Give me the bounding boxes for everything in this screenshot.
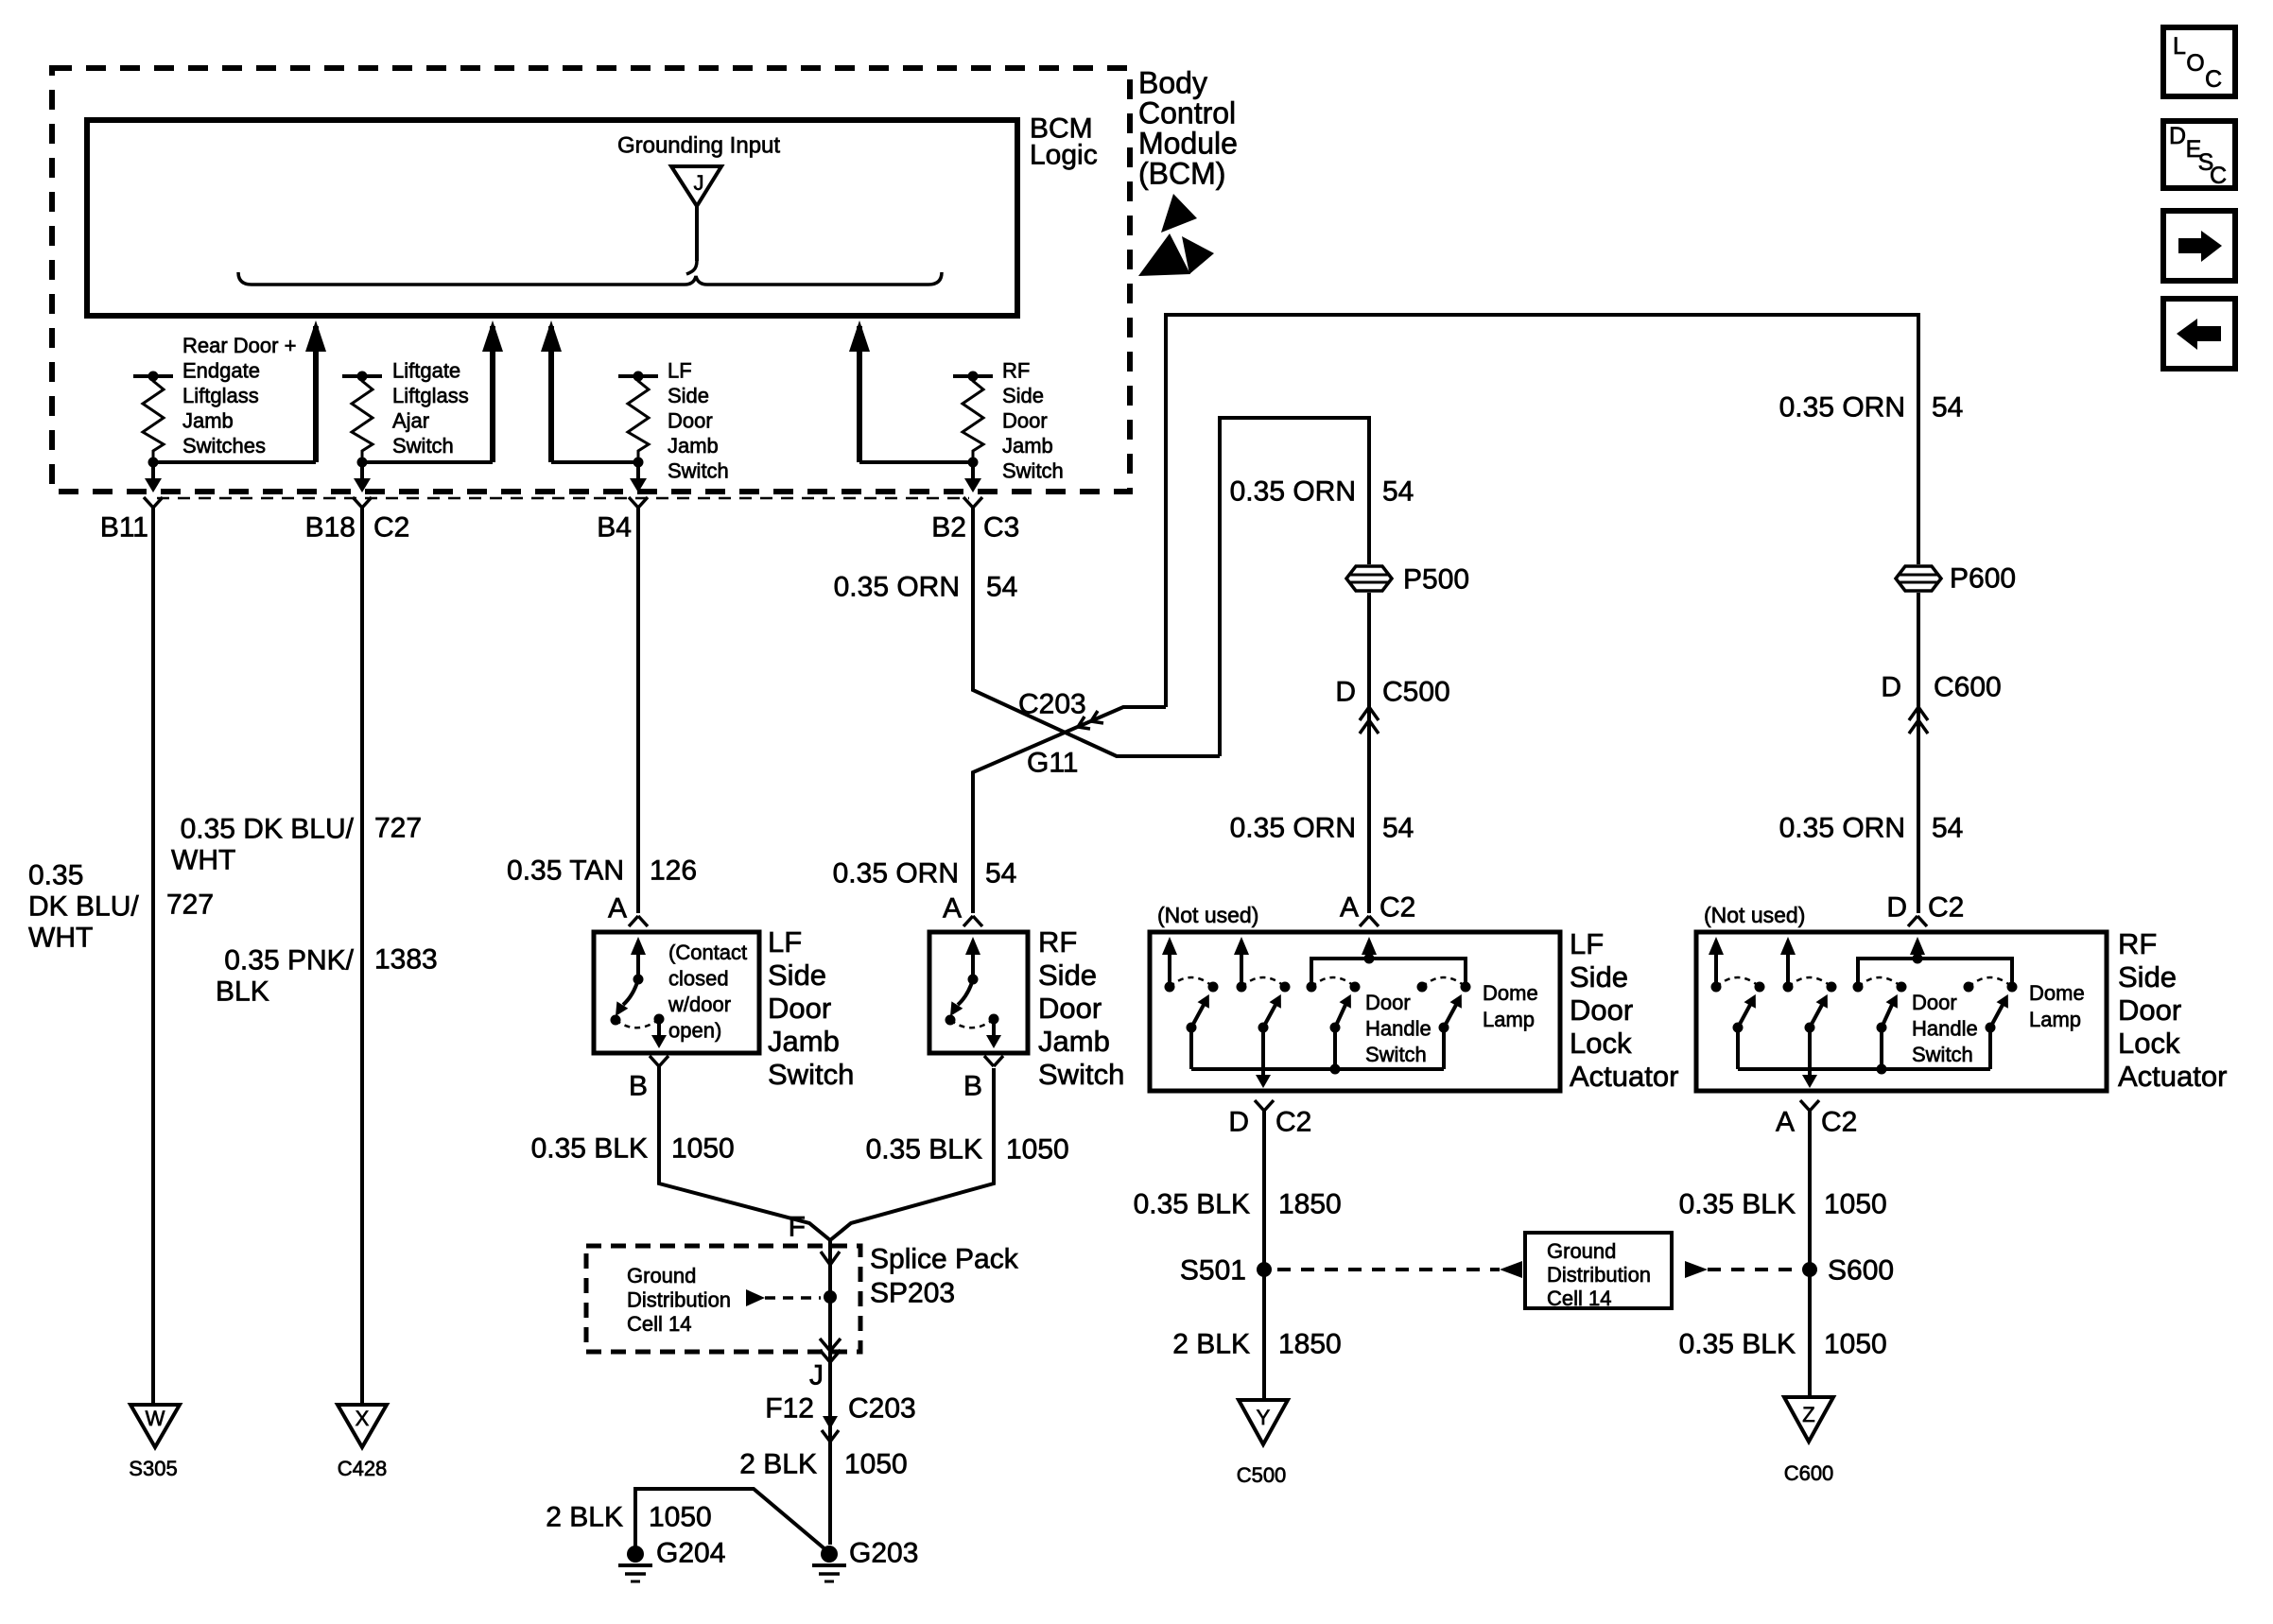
svg-text:Door: Door bbox=[1570, 993, 1633, 1027]
svg-text:Side: Side bbox=[2118, 960, 2177, 993]
svg-text:Liftglass: Liftglass bbox=[392, 384, 469, 407]
svg-text:Switch: Switch bbox=[1912, 1043, 1973, 1066]
splice S501 bbox=[1257, 1262, 1272, 1277]
svg-text:1050: 1050 bbox=[649, 1502, 712, 1533]
svg-text:C2: C2 bbox=[1379, 892, 1415, 924]
arrow into BCM logic from R4 bbox=[857, 326, 862, 462]
svg-text:Jamb: Jamb bbox=[1038, 1025, 1110, 1058]
svg-text:BLK: BLK bbox=[216, 976, 269, 1008]
connector pin B11 bbox=[144, 497, 163, 508]
svg-text:C600: C600 bbox=[1784, 1461, 1834, 1485]
door handle / dome lamp feed bracket in LF Side Door Lock Actuator bbox=[1311, 959, 1466, 987]
off-page triangle Z bbox=[1784, 1397, 1833, 1442]
svg-text:Jamb: Jamb bbox=[668, 434, 719, 458]
wire: crossover leg to RF jamb switch pin A bbox=[973, 707, 1166, 913]
wire: bottom bus of RF Side Door Lock Actuator bbox=[1738, 1067, 1990, 1071]
svg-text:C600: C600 bbox=[1934, 672, 2002, 703]
svg-text:(Not used): (Not used) bbox=[1157, 903, 1258, 927]
svg-text:Liftgate: Liftgate bbox=[392, 358, 460, 382]
svg-text:C3: C3 bbox=[983, 512, 1019, 544]
svg-text:Dome: Dome bbox=[1483, 981, 1538, 1005]
svg-text:LF: LF bbox=[1570, 927, 1604, 960]
svg-text:C: C bbox=[2210, 163, 2227, 189]
ground G203 bbox=[821, 1546, 838, 1563]
svg-text:C: C bbox=[2205, 66, 2222, 93]
svg-text:Door: Door bbox=[1038, 992, 1102, 1025]
svg-text:54: 54 bbox=[986, 572, 1017, 603]
wire: resistor R4 bottom to BCM arrow bbox=[859, 460, 973, 464]
svg-text:Switch: Switch bbox=[1038, 1058, 1124, 1091]
svg-text:Switches: Switches bbox=[182, 434, 266, 458]
svg-text:WHT: WHT bbox=[171, 845, 235, 876]
svg-text:LF: LF bbox=[668, 358, 692, 382]
switch S1 inside RF Side Door Lock Actuator bbox=[1709, 937, 1765, 1069]
grounding input triangle J bbox=[671, 166, 721, 206]
switch contact inside RF Side Door Jamb Switch bbox=[946, 937, 1002, 1048]
svg-text:RF: RF bbox=[2118, 927, 2157, 960]
icon: forward arrow box bbox=[2163, 211, 2235, 281]
svg-text:Lamp: Lamp bbox=[2029, 1008, 2081, 1031]
connector C203 crossover chevrons bbox=[1078, 717, 1090, 729]
svg-text:Endgate: Endgate bbox=[182, 358, 260, 382]
svg-text:B4: B4 bbox=[597, 512, 632, 544]
wire: P500 to C500 bbox=[1367, 593, 1371, 913]
svg-text:G11: G11 bbox=[1027, 748, 1078, 779]
svg-text:P600: P600 bbox=[1950, 563, 2016, 595]
svg-text:(BCM): (BCM) bbox=[1138, 156, 1225, 190]
svg-text:Handle: Handle bbox=[1912, 1016, 1978, 1040]
wire: B11 to S305 (0.35 DK BLU/WHT 727) bbox=[151, 508, 155, 1405]
switch S4 inside LF Side Door Lock Actuator bbox=[1417, 977, 1471, 1069]
RF Side Door Jamb Switch box bbox=[929, 932, 1028, 1053]
svg-text:F12: F12 bbox=[765, 1393, 814, 1425]
svg-text:C2: C2 bbox=[1821, 1107, 1857, 1138]
svg-text:Z: Z bbox=[1802, 1403, 1814, 1426]
BCM dashed outline box bbox=[52, 68, 1130, 492]
svg-text:SP203: SP203 bbox=[870, 1278, 955, 1309]
svg-text:closed: closed bbox=[668, 966, 729, 990]
wire: resistor R2 bottom to BCM arrow bbox=[362, 460, 493, 464]
svg-text:Distribution: Distribution bbox=[627, 1287, 731, 1311]
arrow into BCM logic from R1 bbox=[313, 326, 319, 462]
svg-text:C428: C428 bbox=[338, 1457, 388, 1480]
svg-text:Logic: Logic bbox=[1030, 140, 1098, 171]
svg-text:Cell 14: Cell 14 bbox=[627, 1312, 691, 1336]
switch S2 inside RF Side Door Lock Actuator bbox=[1780, 937, 1837, 1069]
svg-text:727: 727 bbox=[166, 890, 214, 921]
svg-text:Ground: Ground bbox=[1547, 1239, 1616, 1263]
svg-text:J: J bbox=[809, 1360, 824, 1391]
arrow: R3 output through BCM boundary bbox=[636, 462, 640, 487]
off-page triangle Y bbox=[1239, 1400, 1288, 1444]
LF Side Door Lock Actuator box bbox=[1150, 932, 1560, 1091]
arrow to bottom pin of LF Side Door Lock Actuator bbox=[1261, 1069, 1265, 1082]
svg-text:1850: 1850 bbox=[1278, 1189, 1342, 1220]
svg-text:Distribution: Distribution bbox=[1547, 1263, 1651, 1287]
RF Side Door Lock Actuator box bbox=[1696, 932, 2107, 1091]
wire: LF actuator D to C500 triangle (0.35 BLK 1850 / 2 BLK 1850) bbox=[1262, 1111, 1266, 1400]
svg-text:54: 54 bbox=[1932, 813, 1963, 844]
svg-text:0.35 BLK: 0.35 BLK bbox=[866, 1134, 982, 1166]
svg-text:1050: 1050 bbox=[1006, 1134, 1069, 1166]
wire: resistor R1 bottom to BCM arrow bbox=[153, 460, 316, 464]
switch S2 inside LF Side Door Lock Actuator bbox=[1234, 937, 1291, 1069]
switch S1 inside LF Side Door Lock Actuator bbox=[1162, 937, 1219, 1069]
label: R3 description bbox=[668, 358, 729, 482]
splice pack pin J bbox=[820, 1339, 841, 1351]
grounding brace inside BCM bbox=[686, 261, 697, 274]
svg-text:B2: B2 bbox=[931, 512, 966, 544]
wire: top horizontal to P600 branch bbox=[1166, 315, 1918, 707]
thin dashed connector interface line below BCM bbox=[157, 497, 969, 500]
svg-text:0.35 BLK: 0.35 BLK bbox=[531, 1133, 648, 1165]
svg-text:Liftglass: Liftglass bbox=[182, 384, 259, 407]
svg-text:D: D bbox=[1886, 892, 1907, 924]
svg-text:Grounding Input: Grounding Input bbox=[617, 133, 780, 159]
svg-text:Door: Door bbox=[1365, 991, 1411, 1014]
svg-text:0.35 ORN: 0.35 ORN bbox=[1779, 392, 1905, 423]
svg-text:Side: Side bbox=[768, 959, 826, 992]
svg-text:Door: Door bbox=[768, 992, 831, 1025]
wire: C3 down to crossover (0.35 ORN 54) bbox=[973, 508, 1220, 756]
svg-text:0.35 ORN: 0.35 ORN bbox=[834, 572, 960, 603]
wire: through splice pack SP203 bbox=[828, 1240, 832, 1545]
svg-text:L: L bbox=[2173, 33, 2186, 60]
icon: back arrow box bbox=[2163, 299, 2235, 369]
connector pin D C2 (top of RF Side Door Lock Actuator) bbox=[1908, 916, 1927, 926]
svg-text:A: A bbox=[608, 893, 627, 924]
svg-text:Actuator: Actuator bbox=[2118, 1060, 2227, 1093]
svg-text:S501: S501 bbox=[1180, 1255, 1246, 1287]
svg-text:Module: Module bbox=[1138, 126, 1238, 160]
svg-text:WHT: WHT bbox=[28, 923, 93, 954]
svg-text:Jamb: Jamb bbox=[182, 408, 234, 432]
resistor R1 Rear Door + Endgate Liftglass Jamb Switches bbox=[133, 371, 173, 468]
svg-text:B: B bbox=[963, 1071, 982, 1102]
switch S3 inside LF Side Door Lock Actuator bbox=[1307, 977, 1361, 1069]
svg-text:Y: Y bbox=[1257, 1406, 1271, 1429]
switch contact inside LF Side Door Jamb Switch bbox=[611, 937, 668, 1048]
svg-text:Switch: Switch bbox=[768, 1058, 854, 1091]
label: R1 description bbox=[182, 334, 296, 458]
arrow: R1 output through BCM boundary bbox=[151, 462, 155, 487]
svg-text:0.35 TAN: 0.35 TAN bbox=[507, 855, 624, 887]
svg-text:Rear Door +: Rear Door + bbox=[182, 334, 296, 357]
svg-text:Lock: Lock bbox=[1570, 1027, 1632, 1060]
off-page triangle W bbox=[130, 1405, 180, 1447]
svg-text:0.35 ORN: 0.35 ORN bbox=[1230, 476, 1356, 508]
svg-text:Door: Door bbox=[1912, 991, 1957, 1014]
connector pin B of RF Side Door Jamb Switch bbox=[984, 1056, 1003, 1066]
svg-text:open): open) bbox=[668, 1018, 721, 1042]
svg-text:0.35 ORN: 0.35 ORN bbox=[1230, 813, 1356, 844]
wire: J triangle stem bbox=[695, 206, 699, 261]
svg-text:54: 54 bbox=[1382, 476, 1414, 508]
svg-text:54: 54 bbox=[1932, 392, 1963, 423]
svg-text:B11: B11 bbox=[100, 512, 148, 544]
svg-text:Jamb: Jamb bbox=[1002, 434, 1053, 458]
ground distribution reference box (right) bbox=[1525, 1233, 1672, 1308]
svg-text:A: A bbox=[943, 893, 962, 924]
svg-text:C203: C203 bbox=[1018, 689, 1086, 720]
wire: B18/C2 to C428 (0.35 DK BLU/WHT 727 / 0.35 PNK/BLK 1383) bbox=[360, 508, 364, 1405]
svg-text:1050: 1050 bbox=[844, 1449, 908, 1480]
wire: crossover up to P500 branch bbox=[1220, 418, 1369, 756]
wire: RF jamb B to splice F (0.35 BLK 1050) bbox=[830, 1068, 994, 1240]
svg-text:1383: 1383 bbox=[374, 944, 438, 976]
svg-text:DK BLU/: DK BLU/ bbox=[28, 891, 139, 923]
svg-text:54: 54 bbox=[985, 858, 1016, 890]
svg-text:1050: 1050 bbox=[671, 1133, 735, 1165]
svg-text:Ajar: Ajar bbox=[392, 408, 429, 432]
connector pin A of LF Side Door Jamb Switch bbox=[629, 916, 648, 926]
svg-text:Control: Control bbox=[1138, 95, 1236, 130]
svg-text:Door: Door bbox=[2118, 993, 2181, 1027]
svg-text:D: D bbox=[1335, 677, 1356, 708]
svg-text:C2: C2 bbox=[373, 512, 409, 544]
connector pin A C2 (bottom of RF Side Door Lock Actuator) bbox=[1800, 1100, 1819, 1111]
resistor R4 RF Side Door Jamb Switch bbox=[953, 371, 993, 468]
svg-text:A: A bbox=[1340, 892, 1359, 924]
svg-text:Side: Side bbox=[668, 384, 709, 407]
grommet P600 bbox=[1896, 566, 1941, 591]
dashed reference arrow in SP203 bbox=[746, 1289, 765, 1306]
svg-text:A: A bbox=[1776, 1107, 1795, 1138]
connector pin B4 bbox=[629, 497, 648, 508]
svg-text:Jamb: Jamb bbox=[768, 1025, 840, 1058]
svg-text:(Not used): (Not used) bbox=[1704, 903, 1805, 927]
svg-text:Switch: Switch bbox=[392, 434, 454, 458]
svg-text:D: D bbox=[1228, 1107, 1249, 1138]
svg-text:D: D bbox=[2169, 123, 2186, 149]
svg-text:B18: B18 bbox=[305, 512, 356, 544]
connector pin D C2 (bottom of LF Side Door Lock Actuator) bbox=[1255, 1100, 1274, 1111]
svg-text:0.35: 0.35 bbox=[28, 860, 83, 891]
icon: LOC box bbox=[2163, 27, 2235, 96]
switch S3 inside RF Side Door Lock Actuator bbox=[1853, 977, 1907, 1069]
svg-text:Ground: Ground bbox=[627, 1264, 696, 1287]
resistor R3 LF Side Door Jamb Switch bbox=[618, 371, 658, 468]
svg-text:G204: G204 bbox=[656, 1538, 725, 1569]
svg-text:0.35 PNK/: 0.35 PNK/ bbox=[224, 945, 354, 976]
connector pin B2 bbox=[963, 497, 982, 508]
arrow into BCM logic from R3 bbox=[548, 326, 554, 462]
grommet P500 bbox=[1346, 566, 1392, 591]
off-page triangle X bbox=[338, 1405, 387, 1447]
svg-text:RF: RF bbox=[1002, 358, 1030, 382]
svg-text:Handle: Handle bbox=[1365, 1016, 1431, 1040]
svg-text:727: 727 bbox=[374, 813, 422, 844]
svg-text:1050: 1050 bbox=[1824, 1329, 1887, 1360]
svg-text:Side: Side bbox=[1038, 959, 1097, 992]
wire: LF jamb B to splice F (0.35 BLK 1050) bbox=[659, 1066, 830, 1240]
svg-text:Body: Body bbox=[1138, 65, 1207, 99]
svg-text:Switch: Switch bbox=[668, 458, 729, 482]
svg-text:2 BLK: 2 BLK bbox=[739, 1449, 817, 1480]
svg-text:2 BLK: 2 BLK bbox=[1172, 1329, 1250, 1360]
wire: bottom bus of LF Side Door Lock Actuator bbox=[1191, 1067, 1444, 1071]
label: R4 description bbox=[1002, 358, 1064, 482]
svg-text:Switch: Switch bbox=[1002, 458, 1064, 482]
dashed reference to S501 bbox=[1500, 1261, 1522, 1278]
svg-text:P500: P500 bbox=[1403, 564, 1469, 596]
splice S600 bbox=[1802, 1262, 1817, 1277]
svg-text:B: B bbox=[629, 1071, 648, 1102]
connector C500 (pin D) bbox=[1360, 707, 1379, 720]
svg-text:Cell 14: Cell 14 bbox=[1547, 1287, 1611, 1310]
ESD sensitivity symbol bbox=[1161, 194, 1197, 233]
svg-text:Side: Side bbox=[1002, 384, 1044, 407]
arrow into BCM logic from R2 bbox=[490, 326, 495, 462]
svg-text:G203: G203 bbox=[849, 1538, 918, 1569]
door handle / dome lamp feed bracket in RF Side Door Lock Actuator bbox=[1858, 959, 2012, 987]
wire: B4 to LF jamb switch pin A (0.35 TAN 126) bbox=[636, 508, 640, 913]
svg-text:126: 126 bbox=[650, 855, 697, 887]
svg-text:(Contact: (Contact bbox=[668, 941, 747, 964]
svg-text:Door: Door bbox=[668, 408, 713, 432]
connector pin B18 bbox=[353, 497, 372, 508]
svg-text:W: W bbox=[146, 1407, 165, 1430]
splice pack SP203 dashed box bbox=[586, 1246, 860, 1352]
svg-text:Lock: Lock bbox=[2118, 1027, 2180, 1060]
svg-text:LF: LF bbox=[768, 925, 802, 959]
svg-text:1050: 1050 bbox=[1824, 1189, 1887, 1220]
connector C600 (pin D) bbox=[1909, 707, 1928, 720]
svg-text:C2: C2 bbox=[1928, 892, 1964, 924]
svg-text:0.35 DK BLU/: 0.35 DK BLU/ bbox=[181, 814, 355, 845]
svg-text:Switch: Switch bbox=[1365, 1043, 1427, 1066]
wire: branch to G204 (2 BLK 1050) bbox=[635, 1489, 826, 1553]
svg-text:2 BLK: 2 BLK bbox=[546, 1502, 623, 1533]
svg-text:F: F bbox=[789, 1212, 806, 1243]
arrow: R2 output through BCM boundary bbox=[360, 462, 364, 487]
svg-text:C500: C500 bbox=[1237, 1463, 1287, 1487]
wire: RF actuator A to C600 triangle (0.35 BLK 1050) bbox=[1808, 1111, 1812, 1397]
svg-text:Door: Door bbox=[1002, 408, 1048, 432]
icon: DESC box bbox=[2163, 121, 2235, 188]
ground G204 bbox=[627, 1546, 644, 1563]
arrow: R4 output through BCM boundary bbox=[971, 462, 975, 487]
svg-text:0.35 BLK: 0.35 BLK bbox=[1679, 1189, 1796, 1220]
svg-text:S600: S600 bbox=[1828, 1255, 1894, 1287]
wire: resistor R3 bottom to BCM arrow bbox=[551, 460, 638, 464]
svg-text:0.35 ORN: 0.35 ORN bbox=[833, 858, 959, 890]
label: R2 description bbox=[392, 358, 469, 458]
switch S4 inside RF Side Door Lock Actuator bbox=[1964, 977, 2018, 1069]
svg-text:Dome: Dome bbox=[2029, 981, 2085, 1005]
BCM Logic box U1 bbox=[87, 120, 1017, 316]
LF Side Door Jamb Switch box bbox=[594, 932, 759, 1053]
connector pin A of RF Side Door Jamb Switch bbox=[963, 916, 982, 926]
svg-text:54: 54 bbox=[1382, 813, 1414, 844]
connector pin B of LF Side Door Jamb Switch bbox=[650, 1056, 668, 1066]
connector pin A C2 (top of LF Side Door Lock Actuator) bbox=[1360, 916, 1379, 926]
svg-text:J: J bbox=[694, 171, 704, 195]
svg-text:C203: C203 bbox=[848, 1393, 916, 1425]
dashed reference to S600 bbox=[1685, 1261, 1708, 1278]
svg-text:S305: S305 bbox=[129, 1457, 177, 1480]
svg-text:1850: 1850 bbox=[1278, 1329, 1342, 1360]
svg-text:Lamp: Lamp bbox=[1483, 1008, 1535, 1031]
svg-text:C2: C2 bbox=[1275, 1107, 1311, 1138]
svg-text:X: X bbox=[356, 1407, 370, 1430]
wire: P600 to C600 bbox=[1917, 593, 1920, 913]
svg-text:Splice Pack: Splice Pack bbox=[870, 1244, 1019, 1275]
svg-text:O: O bbox=[2186, 50, 2204, 77]
svg-text:w/door: w/door bbox=[668, 993, 731, 1016]
svg-text:0.35 BLK: 0.35 BLK bbox=[1679, 1329, 1796, 1360]
junction in LF Side Door Lock Actuator bbox=[1330, 1064, 1341, 1075]
svg-text:Actuator: Actuator bbox=[1570, 1060, 1678, 1093]
resistor R2 Liftgate Liftglass Ajar Switch bbox=[342, 371, 382, 468]
junction in RF Side Door Lock Actuator bbox=[1877, 1064, 1887, 1075]
svg-text:C500: C500 bbox=[1382, 677, 1450, 708]
junction in SP203 bbox=[824, 1290, 837, 1304]
svg-text:Side: Side bbox=[1570, 960, 1628, 993]
svg-text:RF: RF bbox=[1038, 925, 1077, 959]
svg-text:0.35 ORN: 0.35 ORN bbox=[1779, 813, 1905, 844]
svg-text:0.35 BLK: 0.35 BLK bbox=[1134, 1189, 1250, 1220]
svg-text:D: D bbox=[1881, 672, 1901, 703]
arrow to bottom pin of RF Side Door Lock Actuator bbox=[1808, 1069, 1812, 1082]
